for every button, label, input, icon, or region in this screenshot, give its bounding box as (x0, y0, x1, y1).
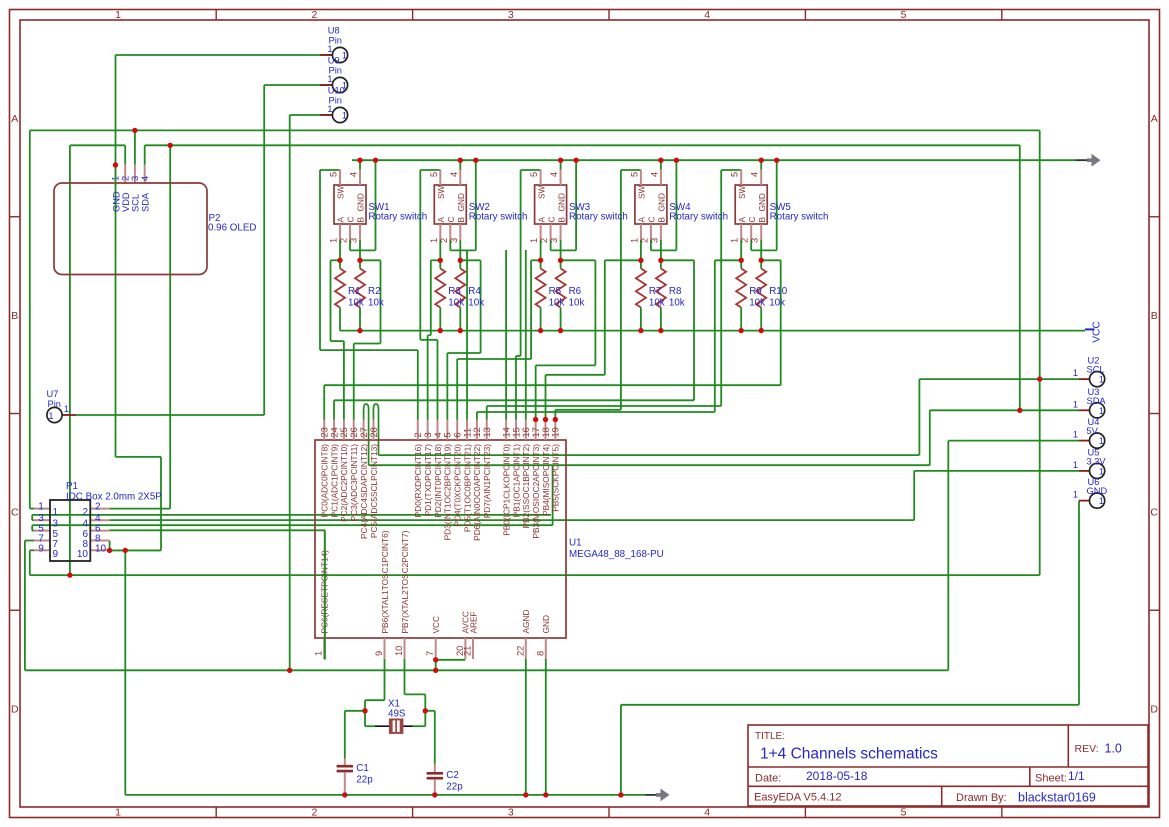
svg-text:4: 4 (433, 432, 443, 437)
svg-text:1: 1 (1099, 375, 1104, 385)
svg-text:25: 25 (339, 427, 349, 437)
svg-text:10: 10 (394, 646, 404, 656)
svg-text:8: 8 (535, 651, 545, 656)
svg-text:PD6(AIN0OC0APCINT22): PD6(AIN0OC0APCINT22) (472, 444, 482, 541)
svg-text:3: 3 (130, 176, 140, 181)
svg-text:B: B (11, 310, 18, 322)
svg-text:A: A (737, 217, 747, 223)
svg-text:2: 2 (120, 176, 130, 181)
svg-text:3: 3 (750, 238, 760, 243)
svg-text:GND: GND (556, 193, 566, 211)
svg-text:R1: R1 (348, 286, 361, 297)
svg-text:GND: GND (1087, 486, 1108, 496)
svg-text:PB4(MISOPCINT4): PB4(MISOPCINT4) (541, 444, 551, 516)
svg-text:7: 7 (425, 651, 435, 656)
svg-text:27: 27 (359, 427, 369, 437)
svg-text:PD3(INT1OC2BPCINT19): PD3(INT1OC2BPCINT19) (443, 444, 453, 541)
svg-text:SW: SW (336, 185, 346, 199)
svg-text:VCC: VCC (1092, 321, 1103, 343)
svg-text:0.96 OLED: 0.96 OLED (208, 223, 256, 234)
svg-text:R3: R3 (448, 286, 461, 297)
svg-text:IDC Box 2.0mm 2X5P: IDC Box 2.0mm 2X5P (66, 492, 162, 503)
svg-text:5: 5 (730, 172, 740, 177)
svg-text:AREF: AREF (468, 611, 478, 633)
svg-text:4: 4 (349, 172, 359, 177)
svg-text:10k: 10k (649, 298, 665, 309)
svg-text:3: 3 (38, 513, 44, 524)
svg-text:1: 1 (1099, 496, 1104, 506)
svg-text:SCL: SCL (131, 194, 141, 212)
svg-text:GND: GND (657, 193, 667, 211)
svg-text:GND: GND (356, 193, 366, 211)
svg-text:2: 2 (740, 238, 750, 243)
svg-text:2: 2 (413, 432, 423, 437)
svg-text:PC2(ADC2PCINT10): PC2(ADC2PCINT10) (339, 444, 349, 522)
svg-text:A: A (536, 217, 546, 223)
svg-text:R8: R8 (669, 286, 682, 297)
svg-text:B: B (757, 217, 767, 223)
svg-text:R9: R9 (749, 286, 762, 297)
svg-text:C: C (747, 217, 757, 223)
svg-text:4: 4 (82, 519, 88, 530)
svg-text:5: 5 (443, 432, 453, 437)
svg-text:PD1(TXDPCINT17): PD1(TXDPCINT17) (423, 444, 433, 517)
svg-text:3: 3 (53, 519, 59, 530)
svg-text:14: 14 (501, 427, 511, 437)
svg-text:U8: U8 (328, 26, 340, 36)
svg-text:5: 5 (901, 807, 907, 819)
svg-text:4: 4 (704, 807, 710, 819)
svg-text:A: A (11, 113, 18, 125)
svg-text:10k: 10k (368, 298, 384, 309)
svg-text:VDD: VDD (121, 192, 131, 212)
svg-text:C1: C1 (356, 763, 369, 774)
svg-text:1: 1 (1099, 466, 1104, 476)
svg-text:SW: SW (436, 185, 446, 199)
svg-text:PB5(SCKPCINT5): PB5(SCKPCINT5) (551, 444, 561, 512)
svg-text:Sheet:: Sheet: (1035, 773, 1067, 785)
svg-text:4: 4 (549, 172, 559, 177)
svg-text:1: 1 (1073, 490, 1078, 500)
svg-text:5: 5 (329, 172, 339, 177)
svg-text:18: 18 (541, 427, 551, 437)
svg-text:A: A (436, 217, 446, 223)
svg-text:1: 1 (53, 507, 59, 518)
svg-text:4: 4 (449, 172, 459, 177)
svg-text:2: 2 (311, 9, 317, 21)
svg-text:TITLE:: TITLE: (755, 731, 785, 742)
svg-text:R5: R5 (549, 286, 562, 297)
svg-text:REV:: REV: (1075, 743, 1099, 755)
svg-text:1/1: 1/1 (1068, 769, 1085, 783)
svg-text:PC3(ADC3PCINT11): PC3(ADC3PCINT11) (349, 444, 359, 522)
svg-text:SW: SW (637, 185, 647, 199)
svg-text:D: D (1150, 703, 1158, 715)
svg-text:1: 1 (342, 111, 347, 121)
svg-text:11: 11 (462, 428, 472, 438)
svg-text:2: 2 (82, 507, 88, 518)
svg-text:AGND: AGND (521, 610, 531, 634)
svg-text:R7: R7 (649, 286, 662, 297)
svg-text:R4: R4 (468, 286, 481, 297)
svg-text:PB7(XTAL2TOSC2PCINT7): PB7(XTAL2TOSC2PCINT7) (400, 530, 410, 633)
svg-text:C: C (446, 217, 456, 223)
svg-text:28: 28 (369, 427, 379, 437)
svg-text:5: 5 (901, 9, 907, 21)
svg-text:R6: R6 (569, 286, 582, 297)
svg-text:1: 1 (329, 238, 339, 243)
svg-text:2: 2 (639, 238, 649, 243)
svg-text:10k: 10k (569, 298, 585, 309)
svg-text:3: 3 (649, 238, 659, 243)
svg-text:1: 1 (429, 238, 439, 243)
svg-text:VCC: VCC (431, 616, 441, 634)
svg-text:D: D (11, 703, 19, 715)
svg-text:1.0: 1.0 (1105, 742, 1122, 756)
svg-text:2: 2 (539, 238, 549, 243)
svg-text:1: 1 (629, 238, 639, 243)
svg-text:10k: 10k (448, 298, 464, 309)
svg-text:1: 1 (1099, 406, 1104, 416)
svg-text:PB0(ICP1CLKOPCINT0): PB0(ICP1CLKOPCINT0) (501, 444, 511, 536)
svg-text:Rotary switch: Rotary switch (669, 212, 728, 223)
svg-text:13: 13 (482, 427, 492, 437)
svg-text:PD2(INT0PCINT18): PD2(INT0PCINT18) (433, 444, 443, 518)
svg-text:A: A (336, 217, 346, 223)
svg-text:B: B (456, 217, 466, 223)
svg-text:49S: 49S (388, 709, 406, 720)
svg-text:Pin: Pin (329, 36, 342, 46)
svg-text:Date:: Date: (755, 773, 781, 785)
svg-text:A: A (637, 217, 647, 223)
svg-text:C2: C2 (446, 770, 459, 781)
svg-text:5: 5 (529, 172, 539, 177)
svg-text:1: 1 (1073, 399, 1078, 409)
svg-text:Rotary switch: Rotary switch (469, 212, 528, 223)
svg-text:PB3(MOSIOC2APCINT3): PB3(MOSIOC2APCINT3) (531, 444, 541, 539)
svg-text:C: C (11, 507, 19, 519)
svg-text:3.3V: 3.3V (1087, 456, 1107, 466)
svg-text:9: 9 (38, 543, 44, 554)
svg-text:PB6(XTAL1TOSC1PCINT6): PB6(XTAL1TOSC1PCINT6) (380, 530, 390, 633)
svg-text:SW: SW (536, 185, 546, 199)
svg-text:PC1(ADC1PCINT9): PC1(ADC1PCINT9) (329, 444, 339, 518)
svg-text:P1: P1 (66, 481, 78, 492)
svg-text:1: 1 (115, 807, 121, 819)
svg-text:U1: U1 (569, 538, 582, 549)
svg-text:Rotary switch: Rotary switch (770, 212, 829, 223)
svg-text:10: 10 (95, 543, 107, 554)
svg-text:10k: 10k (468, 298, 484, 309)
svg-text:10k: 10k (769, 298, 785, 309)
svg-text:12: 12 (472, 427, 482, 437)
svg-text:SCL: SCL (1087, 365, 1105, 375)
svg-text:22p: 22p (446, 782, 463, 793)
svg-text:1: 1 (327, 104, 332, 114)
svg-text:10: 10 (77, 549, 89, 560)
svg-text:PD7(AIN1PCINT23): PD7(AIN1PCINT23) (482, 444, 492, 518)
svg-text:3: 3 (449, 238, 459, 243)
svg-text:PD0(RXDPCINT16): PD0(RXDPCINT16) (413, 444, 423, 518)
svg-text:2: 2 (311, 807, 317, 819)
svg-text:C: C (647, 217, 657, 223)
svg-text:2018-05-18: 2018-05-18 (806, 769, 868, 783)
svg-text:GND: GND (456, 193, 466, 211)
svg-text:15: 15 (511, 427, 521, 437)
svg-text:23: 23 (320, 427, 330, 437)
svg-text:10k: 10k (669, 298, 685, 309)
svg-text:3: 3 (508, 807, 514, 819)
svg-text:1: 1 (327, 44, 332, 54)
svg-text:22p: 22p (356, 775, 373, 786)
svg-text:1: 1 (115, 9, 121, 21)
svg-text:3: 3 (423, 432, 433, 437)
svg-text:1: 1 (48, 411, 53, 421)
svg-text:U7: U7 (47, 389, 59, 399)
svg-text:PD4(T0XCKPCINT20): PD4(T0XCKPCINT20) (453, 444, 463, 527)
svg-text:1: 1 (1099, 436, 1104, 446)
svg-text:6: 6 (453, 432, 463, 437)
svg-text:19: 19 (551, 427, 561, 437)
svg-text:B: B (356, 217, 366, 223)
svg-text:1: 1 (1073, 368, 1078, 378)
svg-text:PC0(ADC0PCINT8): PC0(ADC0PCINT8) (320, 444, 330, 518)
svg-text:5: 5 (429, 172, 439, 177)
svg-text:10k: 10k (549, 298, 565, 309)
svg-text:17: 17 (531, 427, 541, 437)
svg-text:4: 4 (95, 513, 101, 524)
svg-text:B: B (556, 217, 566, 223)
svg-text:A: A (1151, 113, 1158, 125)
svg-text:GND: GND (757, 193, 767, 211)
svg-text:9: 9 (53, 549, 59, 560)
svg-text:SDA: SDA (1087, 396, 1107, 406)
svg-text:Pin: Pin (329, 96, 342, 106)
svg-text:Pin: Pin (48, 399, 61, 409)
svg-text:26: 26 (349, 427, 359, 437)
svg-text:B: B (1151, 310, 1158, 322)
svg-text:1: 1 (38, 502, 44, 513)
svg-text:Rotary switch: Rotary switch (368, 212, 427, 223)
svg-text:21: 21 (463, 646, 473, 656)
svg-text:Rotary switch: Rotary switch (569, 212, 628, 223)
svg-text:1: 1 (64, 404, 69, 414)
svg-text:C: C (546, 217, 556, 223)
svg-text:U10: U10 (328, 86, 345, 96)
svg-text:22: 22 (515, 646, 525, 656)
svg-text:2: 2 (439, 238, 449, 243)
svg-text:PB1(OC1APCINT1): PB1(OC1APCINT1) (511, 444, 521, 518)
svg-text:3: 3 (508, 9, 514, 21)
svg-text:5V: 5V (1087, 426, 1099, 436)
svg-text:SW: SW (737, 185, 747, 199)
svg-text:1: 1 (1073, 460, 1078, 470)
svg-text:2: 2 (95, 502, 101, 513)
svg-text:EasyEDA V5.4.12: EasyEDA V5.4.12 (754, 792, 841, 804)
svg-text:1: 1 (342, 51, 347, 61)
svg-text:1+4 Channels schematics: 1+4 Channels schematics (760, 746, 938, 763)
svg-text:3: 3 (549, 238, 559, 243)
svg-text:GND: GND (541, 615, 551, 633)
svg-text:2: 2 (339, 238, 349, 243)
svg-text:1: 1 (529, 238, 539, 243)
svg-text:1: 1 (1073, 430, 1078, 440)
svg-text:4: 4 (140, 176, 150, 181)
svg-text:10k: 10k (749, 298, 765, 309)
svg-text:SDA: SDA (141, 192, 151, 212)
svg-text:PC4(ADC4SDAPCINT12): PC4(ADC4SDAPCINT12) (359, 444, 369, 539)
svg-text:1: 1 (730, 238, 740, 243)
svg-text:C: C (346, 217, 356, 223)
svg-text:9: 9 (374, 651, 384, 656)
svg-text:16: 16 (521, 427, 531, 437)
svg-text:MEGA48_88_168-PU: MEGA48_88_168-PU (569, 549, 664, 560)
svg-text:3: 3 (349, 238, 359, 243)
svg-text:U9: U9 (328, 56, 340, 66)
svg-text:1: 1 (314, 651, 324, 656)
svg-text:Drawn By:: Drawn By: (956, 792, 1007, 804)
svg-text:10k: 10k (348, 298, 364, 309)
svg-text:R10: R10 (769, 286, 788, 297)
svg-text:B: B (657, 217, 667, 223)
svg-text:GND: GND (111, 191, 121, 212)
svg-text:5: 5 (629, 172, 639, 177)
svg-text:C: C (1150, 507, 1158, 519)
svg-text:Pin: Pin (329, 66, 342, 76)
svg-text:4: 4 (649, 172, 659, 177)
svg-text:PD5(T1OC0BPCINT21): PD5(T1OC0BPCINT21) (462, 444, 472, 532)
svg-text:4: 4 (704, 9, 710, 21)
svg-text:24: 24 (329, 427, 339, 437)
svg-text:PB2(SSOC1BPCINT2): PB2(SSOC1BPCINT2) (521, 444, 531, 529)
svg-text:blackstar0169: blackstar0169 (1018, 791, 1096, 805)
svg-text:R2: R2 (368, 286, 381, 297)
svg-text:4: 4 (750, 172, 760, 177)
svg-text:1: 1 (327, 74, 332, 84)
svg-text:PC5(ADC5SCLPCINT13): PC5(ADC5SCLPCINT13) (369, 444, 379, 538)
